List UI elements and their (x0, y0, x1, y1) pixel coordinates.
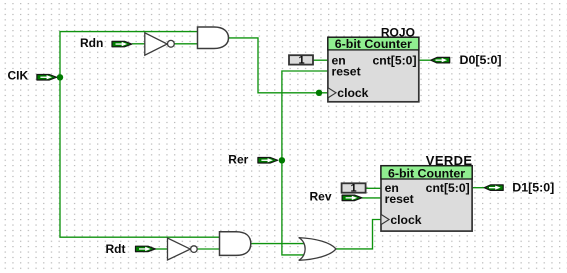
wire Rer pin stub (279, 159, 282, 161)
wire reset net: ROJO reset left, down, to OR input (282, 71, 328, 255)
svg-text:Rev: Rev (310, 190, 332, 204)
wire const2 to VERDE en (366, 187, 381, 189)
svg-text:1: 1 (351, 183, 357, 195)
pin D1[5:0] (484, 185, 503, 191)
svg-text:D0[5:0]: D0[5:0] (460, 53, 502, 67)
svg-text:Rdt: Rdt (106, 242, 126, 256)
and-gate AND1 (198, 27, 229, 49)
constant 1 (VERDE en) (342, 183, 366, 195)
wire AND2 out to OR (251, 243, 308, 245)
node clock junction (316, 90, 322, 96)
svg-text:CIK: CIK (8, 69, 29, 83)
svg-text:6-bit Counter: 6-bit Counter (388, 166, 465, 180)
svg-text:cnt[5:0]: cnt[5:0] (372, 54, 416, 68)
inverter NOT2 (168, 238, 198, 260)
svg-text:reset: reset (332, 64, 361, 78)
wire Rdn pin to NOT1 (132, 43, 145, 45)
svg-text:D1[5:0]: D1[5:0] (512, 180, 554, 194)
node Rer junction (279, 157, 285, 163)
pin Rdt (136, 246, 156, 252)
constant 1 (ROJO en) (289, 54, 313, 66)
wire CIK pin stub (56, 76, 60, 78)
svg-text:reset: reset (385, 192, 414, 206)
wire AND1 out to ROJO clock (229, 38, 328, 93)
wire NOT2 out to AND2 (197, 248, 219, 250)
counter U2 VERDE (381, 166, 472, 231)
wire CIK net: top run, vertical, bottom run (60, 32, 220, 238)
wire Rdt pin to NOT2 (155, 248, 168, 250)
or-gate OR1 (299, 238, 336, 261)
svg-text:cnt[5:0]: cnt[5:0] (426, 181, 470, 195)
counter U1 ROJO (328, 37, 419, 102)
pin Rdn (112, 41, 132, 47)
wire ROJO cnt to D0 pin (419, 59, 431, 61)
inverter NOT1 (145, 33, 175, 55)
pin CIK (37, 75, 57, 81)
svg-text:VERDE: VERDE (426, 153, 473, 168)
svg-text:Rer: Rer (228, 152, 248, 166)
pin D0[5:0] (431, 57, 450, 63)
svg-text:Rdn: Rdn (80, 36, 103, 50)
svg-text:ROJO: ROJO (381, 25, 415, 39)
wire NOT1 out to AND1 (175, 43, 198, 45)
node CIK junction (57, 74, 63, 80)
svg-text:1: 1 (298, 54, 304, 66)
wire Rev pin to VERDE reset (362, 197, 381, 199)
pin Rer (258, 158, 278, 164)
svg-text:clock: clock (390, 213, 421, 227)
wire VERDE cnt to D1 pin (472, 187, 484, 189)
wire const1 to ROJO en (313, 59, 328, 61)
pin Rev (342, 195, 362, 201)
wire OR out to VERDE clock (336, 220, 381, 249)
svg-text:clock: clock (337, 86, 368, 100)
and-gate AND2 (220, 232, 251, 256)
